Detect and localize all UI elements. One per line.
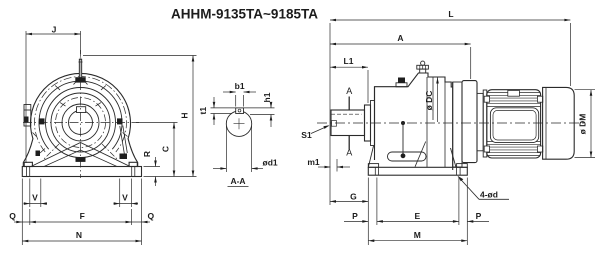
side view centerline [317, 122, 584, 124]
side view vent cap on case top [417, 61, 429, 73]
svg-text:H: H [179, 112, 189, 118]
side view motor flange disc [462, 81, 477, 163]
side view motor center panel [490, 108, 538, 143]
front view diagonal centerline lower-right [102, 144, 118, 160]
side view foot boss left [368, 164, 378, 168]
front view left pad bolt [24, 117, 28, 123]
section label A-A [228, 176, 249, 187]
front view hub circle r18.5 [62, 104, 99, 141]
svg-text:G: G [350, 191, 357, 201]
dimension L1 [330, 56, 368, 103]
front view circle r35 [46, 88, 116, 158]
front view bottom plug (dark) [76, 157, 86, 162]
dimension E [377, 178, 459, 226]
svg-text:ø DC: ø DC [424, 91, 434, 111]
svg-text:S1: S1 [301, 130, 312, 140]
side view flange step [477, 93, 483, 150]
front view gusset triangle [31, 143, 130, 167]
side view motor corner tabs [484, 96, 543, 152]
svg-text:Q: Q [9, 211, 16, 221]
section A-A center marks [234, 118, 245, 129]
svg-text:M: M [414, 230, 421, 240]
dimension M [368, 230, 467, 242]
front view vertical centerline [80, 50, 82, 178]
side view motor fin body [487, 90, 541, 158]
dimension F [22, 209, 141, 225]
svg-text:4-ød: 4-ød [480, 189, 498, 199]
section A-A keyway [236, 108, 244, 114]
dimension C [136, 123, 178, 177]
side view breather plug on case [396, 78, 407, 87]
dimension V right [114, 179, 139, 208]
svg-text:ø DM: ø DM [578, 114, 588, 135]
front view inner bolt circle r25 (dash-dot) [56, 98, 106, 148]
side view pedestal bolt [401, 121, 406, 158]
side view pedestal web rib [415, 142, 426, 167]
side view foot boss right [457, 164, 468, 168]
front view left bolt mark [39, 118, 45, 124]
front view lower-right tie bolt [120, 126, 128, 160]
svg-text:L1: L1 [344, 56, 354, 66]
front view circle r29.5 [51, 93, 110, 152]
svg-text:Q: Q [147, 211, 154, 221]
front view right bolt mark [117, 118, 123, 124]
svg-text:V: V [122, 193, 128, 203]
dimension m1 [307, 157, 350, 172]
dimension Q right [142, 179, 155, 246]
dimension t1 [198, 97, 236, 125]
side view case joint lines [427, 77, 445, 167]
svg-text:J: J [52, 25, 57, 35]
svg-text:m1: m1 [307, 157, 320, 167]
dimension V left [24, 179, 48, 208]
dimension P right [467, 178, 489, 246]
dimension G [330, 191, 368, 202]
front view gearbox housing outer profile [23, 73, 137, 166]
side view motor top plate [508, 90, 520, 96]
dimension DM [575, 90, 596, 158]
front view top cover bolt (dark) [74, 77, 88, 84]
dimension P left [344, 178, 368, 246]
dimension od1 [213, 158, 278, 170]
side view output shaft [331, 110, 365, 136]
dimension A [330, 33, 471, 79]
front view cover circle r41.5 [39, 81, 122, 149]
leader 4-od [458, 176, 510, 200]
front view bore keyway [77, 107, 86, 113]
side view pedestal right edge [451, 148, 457, 167]
dimension DC [424, 78, 439, 123]
dimension h1 [244, 92, 275, 127]
svg-text:N: N [76, 230, 82, 240]
svg-text:P: P [352, 211, 358, 221]
front view left side pad [24, 105, 31, 127]
svg-text:ød1: ød1 [263, 158, 278, 168]
front view gusset inner lines [44, 150, 117, 167]
side view pedestal slot [388, 152, 427, 161]
side view pedestal left edge [368, 146, 373, 167]
side view fan cover [543, 87, 575, 159]
side view gear case outline [375, 73, 453, 170]
svg-text:t1: t1 [198, 107, 208, 115]
side view shaft collar [365, 105, 371, 141]
svg-text:E: E [414, 211, 420, 221]
svg-text:A: A [397, 33, 403, 43]
svg-text:P: P [476, 211, 482, 221]
svg-text:b1: b1 [235, 81, 245, 91]
front view top plug pin [78, 56, 82, 78]
svg-text:A-A: A-A [230, 176, 245, 186]
svg-text:A: A [346, 148, 352, 158]
side view shaft center hole [332, 121, 337, 127]
side view foot plate left slot [375, 167, 378, 175]
front view bolt circle r46 (dash-dot) [35, 77, 127, 152]
dimension L [330, 9, 570, 205]
leader S1 [301, 125, 329, 140]
side view bearing cap [371, 101, 375, 146]
dimension J [26, 25, 81, 164]
svg-text:F: F [80, 211, 85, 221]
svg-text:V: V [32, 193, 38, 203]
front view right foot slot lines [132, 167, 135, 177]
svg-text:R: R [142, 151, 152, 157]
svg-text:C: C [160, 146, 170, 152]
dimension H [83, 56, 197, 177]
side view section line A-A marks [348, 97, 350, 150]
front view bore circle r11 [69, 111, 93, 135]
side view shaft keyway hidden line [331, 113, 362, 115]
side view foot plate [368, 167, 467, 175]
side view foot plate right slot [457, 167, 461, 175]
front view left foot slot lines [27, 167, 30, 177]
front view lower-left bolt head [33, 133, 46, 157]
side view motor endbell [483, 90, 487, 157]
front view tick marks on bolt circles [55, 86, 106, 107]
front view base plate [22, 162, 141, 176]
dimension b1 [223, 81, 256, 107]
dimension N [22, 230, 141, 242]
side view adapter ring [453, 82, 462, 167]
dimension R [142, 151, 160, 186]
svg-text:AHHM-9135TA~9185TA: AHHM-9135TA~9185TA [171, 6, 318, 21]
front view horizontal centerline [23, 122, 139, 124]
svg-text:h1: h1 [262, 92, 272, 102]
side view motor fins bottom [487, 142, 541, 156]
front view diagonal centerline lower-left [43, 144, 59, 160]
side view motor fins top [487, 93, 541, 107]
dimension Q left [9, 179, 22, 246]
section A-A shaft circle [226, 111, 251, 136]
svg-text:L: L [448, 9, 453, 19]
svg-text:A: A [346, 86, 352, 96]
section A-A extension lines for d1 [226, 126, 251, 172]
